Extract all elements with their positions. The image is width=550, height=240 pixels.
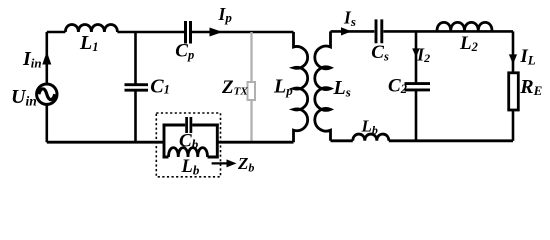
wire bottom rail left of block xyxy=(47,141,164,144)
arrow Zb xyxy=(212,162,229,164)
arrow IL head xyxy=(509,54,517,64)
arrow Ip head xyxy=(210,28,223,37)
wire C2 branch bottom xyxy=(415,91,418,141)
svg-text:Lb: Lb xyxy=(181,157,200,177)
inductor Lp coil xyxy=(294,32,308,142)
wire below RE xyxy=(512,110,515,141)
svg-text:C2: C2 xyxy=(388,76,407,97)
svg-text:Ls: Ls xyxy=(333,77,351,100)
wire secondary top rail left xyxy=(331,30,375,33)
svg-text:Iin: Iin xyxy=(22,48,42,71)
wire left vertical xyxy=(45,32,48,142)
svg-text:L2: L2 xyxy=(459,33,478,54)
wire top rail left xyxy=(47,31,66,34)
svg-text:ZTX: ZTX xyxy=(221,77,248,98)
svg-text:Ip: Ip xyxy=(218,4,233,25)
capacitor C1 branch wire bottom xyxy=(134,91,137,142)
svg-text:Zb: Zb xyxy=(237,154,254,174)
svg-text:Cs: Cs xyxy=(371,42,389,63)
wire top rail to Cp xyxy=(117,31,184,34)
inductor Ls coil xyxy=(315,31,331,140)
svg-text:Is: Is xyxy=(343,7,356,28)
block right bar xyxy=(216,124,219,159)
arrow Is head xyxy=(341,27,352,35)
capacitor Cp xyxy=(186,21,191,44)
svg-text:IL: IL xyxy=(519,46,535,68)
svg-text:Lb: Lb xyxy=(361,117,378,137)
resistor RE box xyxy=(509,73,519,110)
capacitor C2 xyxy=(405,84,431,90)
wire secondary top rail right xyxy=(383,30,513,33)
impedance ZTX box xyxy=(248,82,256,100)
wire right vertical xyxy=(512,31,515,72)
block left bar xyxy=(163,124,166,159)
arrow Iin head xyxy=(42,52,51,65)
dashed box xyxy=(156,113,220,177)
wire top rail Cp to Lp xyxy=(192,31,294,34)
inductor Lb2 on rail xyxy=(353,134,389,141)
svg-text:L1: L1 xyxy=(79,32,98,54)
wire bottom rail right of block xyxy=(217,141,293,144)
svg-text:Cb: Cb xyxy=(179,130,199,151)
source sine xyxy=(39,89,55,100)
capacitor Cb xyxy=(187,117,191,133)
impedance ZTX gray line xyxy=(250,32,252,142)
svg-text:RE: RE xyxy=(519,76,542,98)
wire C2 branch top xyxy=(415,31,418,82)
source Uin circle xyxy=(37,84,57,104)
svg-text:C1: C1 xyxy=(150,76,170,98)
svg-text:Cp: Cp xyxy=(175,40,194,62)
svg-text:Lp: Lp xyxy=(273,76,293,99)
svg-text:Uin: Uin xyxy=(11,86,37,109)
wire secondary bottom rail right xyxy=(389,139,513,142)
capacitor Cs xyxy=(376,19,382,43)
wire secondary bottom rail left xyxy=(331,139,353,142)
block bottom edge stubs xyxy=(163,156,219,159)
inductor Lb in block xyxy=(169,148,208,157)
arrow I2 head xyxy=(412,48,420,57)
svg-text:I2: I2 xyxy=(416,44,430,65)
capacitor C1 xyxy=(125,85,149,91)
inductor L1 xyxy=(65,25,117,33)
block top edge with Cb gap xyxy=(163,124,219,127)
capacitor C1 branch wire top xyxy=(134,32,137,84)
inductor L2 xyxy=(437,22,492,30)
